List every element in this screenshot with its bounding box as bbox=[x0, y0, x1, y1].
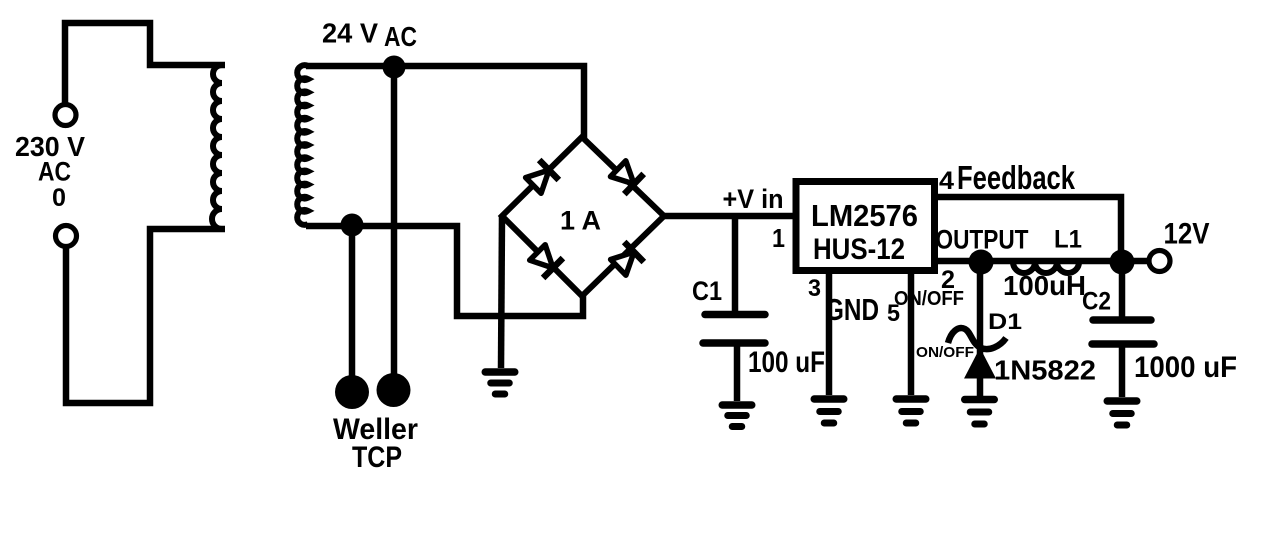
node secondary bottom junction bbox=[341, 214, 364, 237]
svg-text:TCP: TCP bbox=[352, 441, 402, 474]
bridge rectifier diamond bbox=[502, 137, 664, 296]
svg-text:AC: AC bbox=[384, 21, 417, 52]
capacitor C2 bbox=[1092, 320, 1154, 344]
svg-text:LM2576: LM2576 bbox=[811, 198, 918, 233]
inductor L1 bbox=[1013, 262, 1079, 273]
transformer primary winding bbox=[212, 65, 222, 229]
diode bridge top-left bbox=[526, 160, 559, 193]
wire output pin2 bbox=[938, 258, 1160, 265]
ground C2 bbox=[1107, 401, 1137, 425]
wire secondary bottom bbox=[306, 226, 583, 316]
svg-text:Feedback: Feedback bbox=[957, 159, 1075, 196]
ground bridge bbox=[485, 372, 515, 394]
node output junction bbox=[969, 250, 994, 275]
wire bridge left to ground bbox=[501, 216, 502, 368]
svg-text:GND: GND bbox=[825, 292, 879, 327]
wire pin3 to ground bbox=[826, 274, 833, 395]
wire C1 to ground bbox=[734, 346, 741, 401]
svg-text:4: 4 bbox=[939, 167, 954, 195]
capacitor C1 bbox=[703, 315, 765, 344]
wire primary bottom lead bbox=[66, 229, 225, 403]
svg-text:24 V: 24 V bbox=[322, 18, 378, 49]
wire C1 tap bbox=[732, 216, 739, 311]
diode D1 schottky arc bbox=[948, 328, 1006, 349]
svg-text:100 uF: 100 uF bbox=[748, 346, 825, 379]
node L1-C2 junction bbox=[1110, 250, 1135, 275]
ground C1 bbox=[722, 405, 752, 427]
wire pin5 to ground bbox=[908, 274, 915, 395]
svg-text:C1: C1 bbox=[692, 276, 722, 306]
node 24VAC junction bbox=[383, 56, 406, 79]
ground pin3 bbox=[814, 399, 844, 423]
wire 24VAC down to TCP bbox=[391, 67, 398, 388]
svg-text:1N5822: 1N5822 bbox=[994, 355, 1096, 386]
svg-text:C2: C2 bbox=[1082, 288, 1111, 316]
wire D1 vertical bbox=[977, 262, 984, 397]
wire primary top lead bbox=[65, 23, 225, 106]
svg-text:1: 1 bbox=[772, 223, 785, 253]
svg-text:ON/OFF: ON/OFF bbox=[916, 344, 974, 361]
svg-text:1 A: 1 A bbox=[560, 206, 601, 236]
terminal 230V bottom bbox=[56, 226, 77, 247]
svg-text:12V: 12V bbox=[1164, 218, 1210, 251]
svg-text:0: 0 bbox=[52, 184, 66, 212]
svg-text:1000 uF: 1000 uF bbox=[1134, 351, 1237, 384]
wire C2 top bbox=[1119, 262, 1126, 317]
svg-text:D1: D1 bbox=[988, 309, 1022, 334]
diode D1 triangle bbox=[967, 351, 994, 377]
ground pin5 bbox=[896, 399, 926, 423]
svg-text:+V in: +V in bbox=[723, 184, 784, 214]
ground D1 bbox=[965, 400, 995, 425]
op-amp U1 LM2576 box bbox=[796, 182, 935, 271]
svg-text:HUS-12: HUS-12 bbox=[813, 233, 905, 266]
transformer secondary winding bbox=[297, 65, 308, 225]
wire feedback pin4 bbox=[938, 197, 1121, 262]
wire bridge output to IC pin1 bbox=[664, 213, 793, 220]
terminal 12V output bbox=[1149, 251, 1170, 272]
svg-text:3: 3 bbox=[808, 275, 821, 302]
svg-text:100uH: 100uH bbox=[1003, 270, 1086, 301]
diode bridge top-right bbox=[611, 161, 644, 194]
svg-text:L1: L1 bbox=[1054, 226, 1082, 254]
svg-text:AC: AC bbox=[38, 157, 71, 187]
terminal Weller TCP right bbox=[377, 373, 411, 407]
wire junction down to TCP bbox=[349, 225, 356, 390]
terminal 230V top bbox=[55, 105, 76, 126]
wire secondary top to bridge bbox=[306, 66, 584, 139]
terminal Weller TCP left bbox=[335, 375, 369, 409]
diode bridge bottom-right bbox=[611, 242, 644, 275]
wire C2 to ground bbox=[1119, 347, 1126, 397]
svg-text:ON/OFF: ON/OFF bbox=[894, 288, 964, 310]
diode bridge bottom-left bbox=[530, 245, 563, 278]
